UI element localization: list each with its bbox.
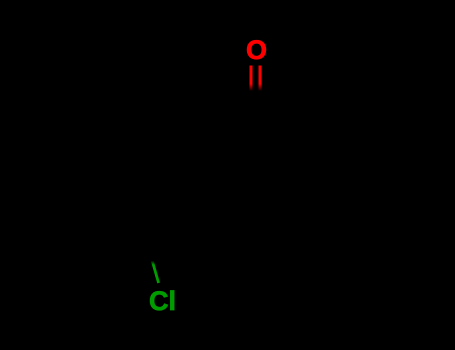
atom Cl (chlorine)	[149, 288, 176, 315]
atom O (ketone oxygen)	[246, 37, 267, 64]
C-Cl bond (green half)	[151, 261, 160, 284]
C=O double bond (red half), right line	[259, 65, 262, 91]
C=O double bond (red half), left line	[250, 65, 253, 91]
